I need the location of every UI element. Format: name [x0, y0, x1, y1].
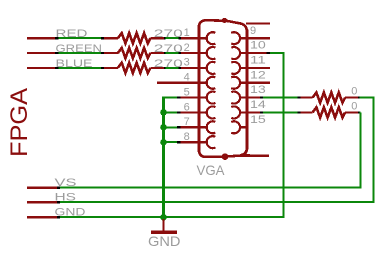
wire pin5 to GND	[162, 97, 177, 99]
junction GND net	[160, 214, 167, 221]
wire net BLUE	[59, 67, 102, 69]
wire net HS vertical	[373, 98, 375, 203]
wire pin6 to GND	[162, 111, 177, 113]
resistor R1 270 (RED) left pin	[104, 37, 118, 39]
resistor R5 0 (pin15) body	[313, 107, 346, 117]
VGA pin 1 stub	[181, 37, 199, 39]
wire net RED	[59, 37, 102, 39]
VGA contact socket pin 12	[231, 62, 240, 74]
resistor R3 270 (BLUE) body	[118, 63, 151, 73]
VGA contact socket pin 15	[231, 106, 240, 118]
FPGA pin RED	[27, 37, 55, 39]
svg-text:270: 270	[154, 43, 183, 55]
VGA pin 15 stub	[246, 111, 260, 113]
resistor R2 270 (GREEN) body	[118, 48, 151, 58]
junction pin6/GND	[160, 109, 167, 116]
svg-text:GND: GND	[148, 233, 181, 249]
VGA contact socket pin 4	[200, 82, 207, 84]
VGA pin 2 stub	[181, 52, 199, 54]
junction pin7/GND	[160, 124, 167, 131]
VGA contact socket pin 1	[200, 37, 207, 39]
VGA pin 4 stub	[157, 82, 199, 84]
resistor R5 0 (pin15) right pin	[345, 111, 358, 113]
svg-text:11: 11	[250, 54, 266, 66]
VGA contact socket pin 5	[200, 96, 207, 98]
FPGA pin GND	[27, 216, 57, 218]
svg-text:FPGA: FPGA	[6, 88, 33, 157]
svg-text:4: 4	[184, 72, 190, 84]
connector VGA top shield nub	[222, 18, 227, 23]
svg-text:15: 15	[250, 114, 266, 126]
svg-text:3: 3	[184, 57, 190, 69]
VGA pin 11 stub	[246, 52, 267, 54]
svg-text:6: 6	[184, 101, 190, 113]
junction pin8/GND	[160, 139, 167, 146]
svg-text:270: 270	[154, 28, 183, 40]
wire net VS stub at R5	[359, 111, 362, 113]
wire net GREEN (resistor to connector)	[166, 52, 179, 54]
VGA contact socket pin 3	[200, 67, 207, 69]
VGA pin 14 stub	[246, 96, 260, 98]
ground symbol stem	[162, 219, 164, 231]
resistor R2 270 (GREEN) right pin	[150, 52, 164, 54]
VGA contact socket pin 11	[231, 47, 240, 59]
VGA contact socket pin 7	[200, 126, 207, 128]
wire pin14 to R4	[263, 97, 297, 99]
VGA contact socket pin 16	[231, 121, 240, 133]
wire pin7 to GND	[162, 126, 177, 128]
resistor R5 0 (pin15) left pin	[301, 111, 313, 113]
FPGA pin VS	[27, 187, 57, 189]
wire net VS horizontal	[59, 187, 362, 189]
svg-text:7: 7	[184, 116, 190, 128]
wire net GND horizontal	[59, 216, 285, 218]
svg-text:HS: HS	[55, 191, 77, 203]
svg-text:5: 5	[184, 86, 190, 98]
wire net HS stub at R4	[360, 97, 375, 99]
svg-text:GND: GND	[55, 206, 86, 218]
resistor R4 0 (pin14) left pin	[301, 96, 313, 98]
VGA pin 10 stub	[246, 37, 270, 39]
svg-text:VS: VS	[55, 177, 77, 189]
VGA pin 12 stub	[246, 67, 270, 69]
connector VGA left contact bus	[197, 25, 200, 152]
wire overlap marks	[55, 37, 59, 39]
VGA contact socket pin 2	[200, 52, 207, 54]
resistor R4 0 (pin14) body	[313, 92, 346, 102]
VGA contact socket pin 10	[231, 32, 240, 44]
FPGA pin BLUE	[27, 67, 55, 69]
wire pin11 to GND	[270, 52, 285, 54]
VGA pin 5 stub	[181, 96, 199, 98]
wire net BLUE (resistor to connector)	[166, 67, 179, 69]
svg-text:BLUE: BLUE	[56, 58, 93, 70]
VGA contact socket pin 14	[231, 92, 240, 104]
svg-text:13: 13	[250, 84, 266, 96]
wire net RED (resistor to connector)	[166, 37, 179, 39]
svg-text:VGA: VGA	[197, 162, 226, 178]
FPGA U1 label	[6, 88, 33, 157]
VGA pin 6 stub	[181, 111, 199, 113]
wire GND bus vertical to VGA pins 5-8	[162, 97, 165, 218]
wire pin15 to R5	[263, 111, 297, 113]
ground symbol bar	[151, 230, 177, 234]
VGA pin 9 stub	[246, 22, 270, 24]
svg-text:10: 10	[250, 40, 266, 52]
svg-text:2: 2	[184, 42, 190, 54]
svg-text:270: 270	[154, 58, 183, 70]
wire net HS horizontal	[59, 201, 375, 203]
svg-text:1: 1	[184, 27, 190, 39]
svg-text:8: 8	[184, 131, 190, 143]
resistor R3 270 (BLUE) left pin	[104, 67, 118, 69]
VGA contact socket pin 6	[200, 111, 207, 113]
wire pin8 to GND	[162, 141, 177, 143]
VGA pin 7 stub	[181, 126, 199, 128]
svg-text:RED: RED	[56, 28, 88, 40]
FPGA pin HS	[27, 201, 57, 203]
resistor R1 270 (RED) right pin	[150, 37, 164, 39]
svg-text:GREEN: GREEN	[56, 43, 103, 55]
VGA contact socket pin 13	[231, 77, 240, 89]
resistor R2 270 (GREEN) left pin	[104, 52, 118, 54]
svg-text:0: 0	[351, 100, 357, 112]
connector VGA body outline left/top/bottom	[199, 20, 269, 157]
svg-text:14: 14	[250, 99, 266, 111]
VGA contact socket pin 8	[200, 141, 207, 143]
FPGA pin GREEN	[27, 52, 55, 54]
resistor R4 0 (pin14) right pin	[345, 96, 358, 98]
wire net GND vertical from pin11	[283, 53, 285, 217]
VGA pin 3 stub	[181, 67, 199, 69]
connector VGA bottom shield junction	[222, 153, 229, 160]
svg-text:0: 0	[351, 86, 357, 98]
svg-text:9: 9	[250, 25, 256, 37]
wire net GREEN	[59, 52, 102, 54]
VGA pin 8 stub	[181, 141, 199, 143]
resistor R1 270 (RED) body	[118, 33, 151, 43]
resistor R3 270 (BLUE) right pin	[150, 67, 164, 69]
VGA pin 13 stub	[246, 82, 270, 84]
wire net VS vertical	[360, 112, 362, 187]
svg-text:12: 12	[250, 69, 266, 81]
connector VGA right contact bus	[240, 30, 247, 156]
